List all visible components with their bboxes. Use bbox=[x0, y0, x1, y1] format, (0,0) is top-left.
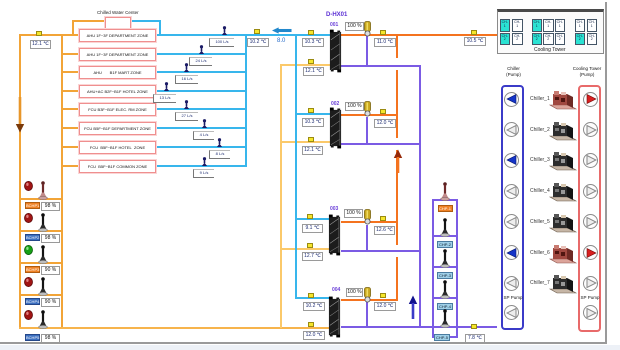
chiller unit 7 bbox=[548, 272, 578, 294]
sensor HX3 warm 12.7C bbox=[307, 243, 313, 248]
temp top-left 12.1C bbox=[30, 40, 51, 49]
wire: HX2 primary return bbox=[341, 114, 398, 116]
wire: HX3 cyan supply bbox=[295, 218, 331, 220]
chiller unit 2 bbox=[548, 119, 578, 141]
pump P5 bbox=[38, 310, 48, 329]
wire: HX3 primary return bbox=[341, 221, 398, 223]
SP pump left bbox=[503, 295, 523, 300]
wire: HX2 valve purple stub bbox=[366, 117, 368, 145]
button cooling tower (right) bbox=[583, 245, 598, 260]
temp HX1 supply 10.3C bbox=[302, 38, 324, 47]
zone box AHU 1F~3F DEPARTMENT ZONE bbox=[79, 29, 156, 42]
wire: purple riser bbox=[419, 65, 421, 328]
zone box FCU B5F~B1F COMMON ZONE bbox=[79, 160, 156, 173]
wire: HX warm-feed riser (light orange) bbox=[280, 64, 282, 328]
status cell group3 a half on bbox=[575, 19, 586, 32]
primary pump column box bbox=[432, 199, 458, 338]
pump CHP-2 bbox=[440, 218, 450, 237]
valve V004 bbox=[363, 287, 372, 303]
zone box AHU 1F~3F DEPARTMENT ZONE 2 bbox=[79, 48, 156, 61]
value box 100% U004 bbox=[346, 288, 363, 297]
temp chilled supply 7.8C bbox=[465, 334, 485, 343]
pump CHP-5 bbox=[440, 309, 450, 328]
label P2 + value bbox=[25, 234, 40, 241]
zone box FCU B3F~B1F ELEC RM ZONE bbox=[79, 103, 156, 116]
sensor top-left bbox=[36, 31, 42, 36]
button cooling tower (right) bbox=[583, 153, 598, 168]
label P1 + value bbox=[25, 202, 40, 209]
window frame right bbox=[605, 2, 607, 343]
wire: zone row stubs (orange) bbox=[61, 53, 80, 55]
wire: zone cyan rows bbox=[154, 53, 247, 55]
zone valve row1 bbox=[221, 26, 228, 35]
wire: bottom purple header bbox=[341, 326, 497, 328]
button chiller 7 start/stop (left) bbox=[504, 276, 519, 291]
wire: zone/pump manifold vertical bbox=[61, 34, 63, 329]
button chiller 4 start/stop (left) bbox=[504, 184, 519, 199]
status panel bbox=[497, 9, 604, 54]
flow box row5 bbox=[175, 112, 198, 121]
wire: legend stub orange bbox=[72, 20, 74, 36]
wire: HX3 warm feed bbox=[280, 248, 330, 250]
heat exchanger U003 bbox=[328, 213, 341, 257]
status cell group2 c off bbox=[555, 19, 566, 32]
flow arrow down on left riser bbox=[15, 97, 25, 133]
sensor HX1 warm 12.1C bbox=[308, 59, 314, 64]
sensor HX3 supply 9.1C bbox=[307, 214, 313, 219]
pump P3 bbox=[38, 245, 48, 264]
sensor HX2 warm 12.1C bbox=[308, 137, 314, 142]
sensor HX4 warm 12.0C bbox=[308, 322, 314, 327]
label 002 bbox=[331, 101, 339, 107]
sensor plant return 10.5C bbox=[471, 30, 477, 35]
wire: HX1 valve purple stub bbox=[366, 36, 368, 67]
chiller unit 3 bbox=[548, 149, 578, 171]
zone valve row4 bbox=[163, 82, 170, 91]
flow box row2 bbox=[189, 57, 212, 66]
button cooling tower (right) bbox=[583, 276, 598, 291]
wire: pump cell lines bbox=[19, 198, 63, 200]
temp HX3 return 12.6C bbox=[374, 226, 395, 235]
label P3 + value bbox=[25, 266, 40, 273]
zone valve row8 bbox=[201, 157, 208, 166]
sensor header 10.2C bbox=[254, 29, 260, 34]
wire: bottom orange header bbox=[19, 327, 331, 329]
sensor HX4 supply 10.2C bbox=[308, 293, 314, 298]
pump P2 bbox=[38, 213, 48, 232]
indicator P2 red bbox=[24, 213, 33, 223]
node label 8.0 bbox=[277, 38, 285, 44]
wire: HX4 primary return bbox=[341, 299, 398, 301]
temp HX2 supply 10.3C bbox=[302, 118, 324, 127]
wire: HX3 valve purple stub bbox=[366, 225, 368, 252]
wire: HX1 warm feed bbox=[280, 64, 330, 66]
temp plant return 10.5C bbox=[464, 37, 486, 46]
button chiller 3 start/stop (left) bbox=[504, 153, 519, 168]
button chiller 2 start/stop (left) bbox=[504, 122, 519, 137]
button chiller 5 start/stop (left) bbox=[504, 214, 519, 229]
heading Chiller (Pump) bbox=[502, 66, 525, 77]
temp HX2 warm 12.1C bbox=[302, 146, 323, 155]
flow arrow left (supply) bbox=[272, 27, 292, 34]
temp HX3 supply 9.1C bbox=[302, 224, 323, 233]
chiller pump panel (blue) bbox=[501, 85, 524, 330]
flow box row8 bbox=[193, 169, 214, 178]
zone valve row7 bbox=[216, 138, 223, 147]
button cooling tower (right) bbox=[583, 184, 598, 199]
wire: HX1 primary return to panel (orange) bbox=[341, 34, 498, 36]
label Chiller_7 bbox=[530, 280, 549, 286]
zone box FCU B5F~B1F DEPARTMENT ZONE bbox=[79, 122, 156, 135]
button cooling tower (right) bbox=[583, 122, 598, 137]
temp HX3 warm 12.7C bbox=[302, 252, 323, 261]
value box 100% U003 bbox=[344, 209, 363, 218]
flow arrow up on purple riser bbox=[408, 295, 418, 319]
flow arrow up on primary return riser bbox=[393, 149, 403, 173]
wire: HX2 cyan supply bbox=[295, 113, 331, 115]
temp HX1 return 11.0C bbox=[374, 38, 396, 47]
status cell CH-3/4 off bbox=[512, 19, 523, 32]
temp HX4 return 12.0C bbox=[374, 302, 396, 311]
zone box AHU B1F MART ZONE bbox=[79, 66, 156, 79]
chiller unit 4 bbox=[548, 180, 578, 202]
zone valve row6 bbox=[201, 119, 208, 128]
pump CHP-3 bbox=[440, 249, 450, 268]
title D-HX01 bbox=[326, 12, 347, 18]
wire: HX2 warm feed bbox=[280, 141, 330, 143]
zone valve row2 bbox=[198, 45, 205, 54]
wire: HX2 chilled supply bbox=[341, 143, 421, 145]
window frame bottom bbox=[0, 342, 607, 344]
chiller unit 6 (red/run) bbox=[548, 242, 578, 264]
wire: HX cyan riser bbox=[295, 34, 297, 299]
sensor HX1 supply 10.3C bbox=[308, 30, 314, 35]
valve V001 bbox=[363, 21, 372, 37]
status cell group2 a on bbox=[532, 19, 543, 32]
wire: HX4 cyan supply bbox=[295, 297, 329, 299]
button chiller 6 start/stop (left) bbox=[504, 245, 519, 260]
status cell CH-1/2 on bbox=[500, 19, 511, 32]
wire: legend stub cyan bbox=[129, 20, 161, 22]
label P5 + value bbox=[25, 334, 40, 341]
zone box AHU+AC B2F~B1F HOTEL ZONE bbox=[79, 85, 156, 98]
label 001 bbox=[330, 22, 338, 28]
heat exchanger U004 bbox=[328, 295, 341, 339]
indicator P4 red bbox=[24, 277, 33, 287]
sensor HX3 return 12.6C bbox=[380, 216, 386, 221]
wire: HX1 chilled supply (purple) bbox=[341, 65, 421, 67]
label 004 bbox=[332, 287, 340, 293]
button chiller 1 start/stop (left) bbox=[504, 92, 519, 107]
temp header 10.2C bbox=[247, 38, 269, 47]
sensor chilled supply 7.8C bbox=[471, 324, 477, 329]
status cell group2 b off bbox=[543, 19, 554, 32]
window lower strip bbox=[0, 345, 620, 350]
wire: top-left orange return header bbox=[19, 34, 81, 36]
pump P4 bbox=[38, 277, 48, 296]
temp HX2 return 12.0C bbox=[374, 119, 396, 128]
sensor HX2 return 12.0C bbox=[380, 109, 386, 114]
zone valve row5 bbox=[183, 100, 190, 109]
button cooling tower (right) bbox=[583, 214, 598, 229]
heading Cooling Tower (Pump) bbox=[572, 66, 602, 77]
indicator P1 red bbox=[24, 181, 33, 191]
valve V002 bbox=[363, 101, 372, 117]
label Chiller_1 bbox=[530, 96, 549, 102]
flow box row1 bbox=[209, 38, 234, 47]
flow box row4 bbox=[153, 94, 176, 103]
label Chiller_6 bbox=[530, 250, 549, 256]
indicator P5 red bbox=[24, 310, 33, 320]
cooling tower pump panel (red) bbox=[578, 85, 601, 332]
pump CHP-4 bbox=[440, 280, 450, 299]
wire: zone cyan riser bbox=[245, 34, 247, 167]
temp HX1 warm 12.1C bbox=[303, 67, 324, 76]
SP pump right bbox=[580, 295, 600, 300]
chiller unit 1 (red/run) bbox=[548, 88, 578, 110]
flow box row6 bbox=[193, 131, 214, 140]
legend box bbox=[105, 17, 131, 29]
chiller unit 5 bbox=[548, 211, 578, 233]
sensor HX4 return 12.0C bbox=[380, 293, 386, 298]
heat exchanger U001 bbox=[329, 28, 342, 74]
wire: top cyan supply header bbox=[155, 34, 330, 36]
button cooling tower (right) bbox=[583, 92, 598, 107]
valve V003 bbox=[363, 209, 372, 225]
pump P1 (secondary, running-red) bbox=[38, 181, 48, 200]
flow box row7 bbox=[209, 150, 230, 159]
label Chiller_3 bbox=[530, 157, 549, 163]
zone valve row3 bbox=[183, 63, 190, 72]
label Chiller_4 bbox=[530, 188, 549, 194]
wire: HX4 valve purple stub bbox=[366, 302, 368, 328]
value box 100% U001 bbox=[345, 22, 364, 31]
wire: left orange riser bbox=[19, 34, 21, 329]
wire: primary return riser bbox=[396, 34, 398, 58]
sensor HX1 return 11.0C bbox=[380, 30, 386, 35]
heat exchanger U002 bbox=[329, 106, 342, 150]
label Chiller_2 bbox=[530, 127, 549, 133]
wire: HX3 chilled supply bbox=[341, 250, 421, 252]
zone box FCU B5F~B1F HOTEL ZONE bbox=[79, 141, 156, 154]
status cell group3 b off bbox=[587, 19, 598, 32]
temp HX4 warm 12.0C bbox=[303, 331, 325, 340]
title text bbox=[97, 10, 139, 15]
label P4 + value bbox=[25, 298, 40, 305]
sensor HX2 supply 10.3C bbox=[308, 108, 314, 113]
label 003 bbox=[330, 206, 338, 212]
label Chiller_5 bbox=[530, 219, 549, 225]
flow box row3 bbox=[175, 75, 198, 84]
value box 100% U002 bbox=[345, 102, 364, 111]
temp HX4 supply 10.2C bbox=[303, 302, 325, 311]
indicator P3 green bbox=[24, 245, 33, 255]
pump CHP-R (red) bbox=[440, 182, 450, 201]
